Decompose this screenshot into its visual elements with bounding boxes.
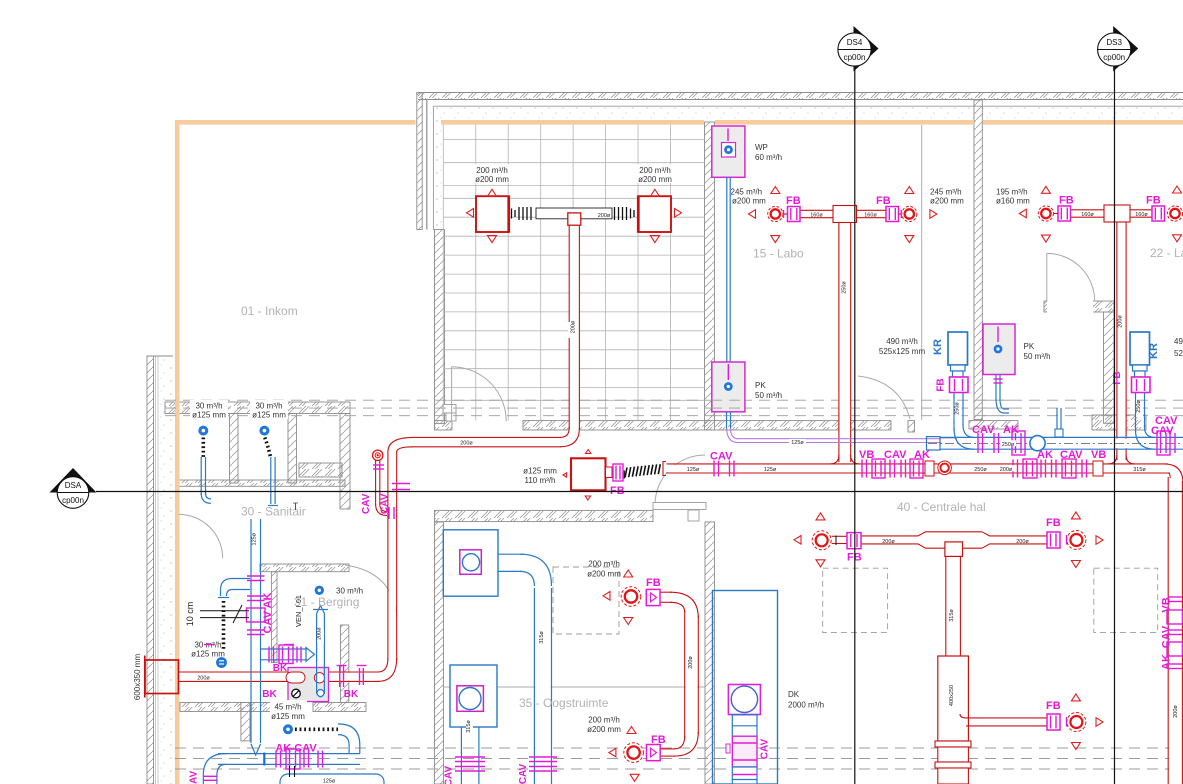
svg-text:31 - Berging: 31 - Berging bbox=[294, 595, 359, 609]
svg-text:01 - Inkom: 01 - Inkom bbox=[241, 304, 298, 318]
svg-text:30 m³/h: 30 m³/h bbox=[255, 402, 282, 411]
svg-text:200ø: 200ø bbox=[1118, 315, 1124, 328]
svg-text:200ø: 200ø bbox=[688, 656, 694, 669]
svg-text:250ø: 250ø bbox=[842, 281, 848, 294]
svg-text:KR: KR bbox=[1148, 343, 1160, 359]
svg-text:400x250: 400x250 bbox=[949, 685, 955, 706]
svg-text:45 m²/h: 45 m²/h bbox=[274, 703, 301, 712]
svg-text:110 m³/h: 110 m³/h bbox=[525, 476, 556, 485]
svg-text:ø200 mm: ø200 mm bbox=[475, 175, 509, 184]
svg-text:CAV: CAV bbox=[1161, 625, 1173, 648]
svg-text:FB: FB bbox=[786, 195, 801, 207]
svg-text:200ø: 200ø bbox=[460, 441, 473, 447]
svg-text:50 m³/h: 50 m³/h bbox=[755, 391, 782, 400]
svg-text:200 m³/h: 200 m³/h bbox=[588, 716, 620, 725]
svg-text:FB: FB bbox=[876, 195, 891, 207]
svg-text:AK: AK bbox=[914, 449, 930, 461]
svg-text:cp00n: cp00n bbox=[1103, 53, 1125, 62]
svg-text:CAV: CAV bbox=[1060, 449, 1083, 461]
svg-text:250ø: 250ø bbox=[1136, 400, 1142, 413]
svg-text:ø125 mm: ø125 mm bbox=[271, 712, 305, 721]
svg-text:CAV AK: CAV AK bbox=[262, 592, 274, 633]
svg-text:200ø: 200ø bbox=[317, 627, 323, 640]
svg-text:ø200 mm: ø200 mm bbox=[587, 570, 621, 579]
svg-text:160ø: 160ø bbox=[810, 213, 823, 219]
svg-text:FB: FB bbox=[651, 734, 666, 746]
svg-text:AK: AK bbox=[1161, 654, 1173, 670]
svg-text:200ø: 200ø bbox=[882, 539, 895, 545]
svg-text:125ø: 125ø bbox=[687, 467, 700, 473]
svg-text:200ø: 200ø bbox=[1016, 539, 1029, 545]
svg-text:ø125 mm: ø125 mm bbox=[192, 411, 226, 420]
svg-text:15 - Labo: 15 - Labo bbox=[753, 247, 804, 261]
svg-text:CAV: CAV bbox=[710, 451, 733, 463]
svg-text:245 m³/h: 245 m³/h bbox=[731, 188, 763, 197]
svg-text:315ø: 315ø bbox=[1133, 467, 1146, 473]
svg-text:30 m³/h: 30 m³/h bbox=[195, 402, 222, 411]
svg-text:2000 m³/h: 2000 m³/h bbox=[788, 701, 824, 710]
svg-text:250ø: 250ø bbox=[1002, 442, 1015, 448]
svg-text:AK: AK bbox=[1003, 424, 1019, 436]
svg-text:CAV: CAV bbox=[1151, 425, 1174, 437]
svg-text:BK: BK bbox=[344, 689, 359, 700]
svg-text:BK: BK bbox=[262, 689, 277, 700]
svg-text:FB: FB bbox=[1112, 371, 1123, 384]
svg-text:ø200 mm: ø200 mm bbox=[587, 725, 621, 734]
svg-text:BK: BK bbox=[273, 663, 288, 674]
svg-text:ø200 mm: ø200 mm bbox=[638, 175, 672, 184]
svg-text:KR: KR bbox=[932, 339, 944, 355]
svg-text:490 m³/h: 490 m³/h bbox=[886, 337, 918, 346]
svg-text:CAV: CAV bbox=[884, 449, 907, 461]
svg-text:200ø: 200ø bbox=[571, 320, 577, 333]
svg-text:DS3: DS3 bbox=[1106, 38, 1122, 47]
svg-text:CAV: CAV bbox=[361, 493, 372, 514]
svg-text:ø125 mm: ø125 mm bbox=[191, 650, 225, 659]
svg-text:ø125 mm: ø125 mm bbox=[523, 467, 557, 476]
svg-text:CAV: CAV bbox=[972, 424, 995, 436]
svg-text:FB: FB bbox=[1146, 195, 1161, 207]
svg-text:200ø: 200ø bbox=[197, 676, 210, 682]
svg-text:60 m³/h: 60 m³/h bbox=[755, 153, 782, 162]
svg-text:525x125 mm: 525x125 mm bbox=[879, 347, 926, 356]
svg-text:125ø: 125ø bbox=[764, 467, 777, 473]
svg-text:DS4: DS4 bbox=[847, 38, 863, 47]
svg-text:160ø: 160ø bbox=[864, 213, 877, 219]
svg-text:525: 525 bbox=[1174, 349, 1183, 358]
svg-text:600x350 mm: 600x350 mm bbox=[133, 654, 142, 701]
svg-text:cp00n: cp00n bbox=[844, 53, 866, 62]
svg-text:FB: FB bbox=[1059, 195, 1074, 207]
svg-text:160ø: 160ø bbox=[1135, 212, 1148, 218]
svg-text:250ø: 250ø bbox=[955, 402, 961, 415]
svg-text:CAV: CAV bbox=[760, 738, 771, 759]
svg-text:125ø: 125ø bbox=[323, 779, 336, 784]
svg-text:CAV: CAV bbox=[518, 763, 529, 784]
svg-text:FB: FB bbox=[646, 577, 661, 589]
svg-text:200ø: 200ø bbox=[1000, 467, 1013, 473]
svg-text:cp00n: cp00n bbox=[62, 496, 84, 505]
svg-text:CAV: CAV bbox=[444, 765, 455, 784]
svg-text:245 m³/h: 245 m³/h bbox=[930, 188, 962, 197]
svg-text:125ø: 125ø bbox=[791, 440, 804, 446]
svg-text:ø160 mm: ø160 mm bbox=[996, 197, 1030, 206]
svg-text:200 m³/h: 200 m³/h bbox=[476, 166, 508, 175]
svg-text:315ø: 315ø bbox=[539, 631, 545, 644]
svg-text:PK: PK bbox=[755, 381, 766, 390]
svg-text:FB: FB bbox=[1046, 700, 1061, 712]
svg-text:ø200 mm: ø200 mm bbox=[732, 197, 766, 206]
svg-text:250ø: 250ø bbox=[974, 467, 987, 473]
svg-text:200 m³/h: 200 m³/h bbox=[639, 166, 671, 175]
svg-text:VB: VB bbox=[859, 449, 874, 461]
svg-text:CAV: CAV bbox=[189, 770, 200, 784]
svg-text:160ø: 160ø bbox=[1081, 212, 1094, 218]
svg-text:125ø: 125ø bbox=[252, 532, 258, 545]
svg-text:35 - Oogstruimte: 35 - Oogstruimte bbox=[519, 696, 609, 710]
svg-text:50 m³/h: 50 m³/h bbox=[1024, 352, 1051, 361]
svg-text:490: 490 bbox=[1174, 337, 1183, 346]
svg-text:200 m³/h: 200 m³/h bbox=[588, 560, 620, 569]
svg-text:315ø: 315ø bbox=[949, 609, 955, 622]
svg-text:FB: FB bbox=[1046, 517, 1061, 529]
svg-text:22 - La: 22 - La bbox=[1150, 246, 1183, 260]
svg-text:315ø: 315ø bbox=[466, 720, 472, 733]
svg-text:ø200 mm: ø200 mm bbox=[930, 197, 964, 206]
svg-text:VB: VB bbox=[1161, 597, 1173, 612]
svg-text:10 cm: 10 cm bbox=[185, 602, 195, 627]
svg-text:CAV: CAV bbox=[380, 493, 391, 514]
svg-text:WP: WP bbox=[755, 143, 768, 152]
svg-text:40 - Centrale hal: 40 - Centrale hal bbox=[897, 500, 986, 514]
svg-text:200ø: 200ø bbox=[598, 213, 611, 219]
svg-text:200ø: 200ø bbox=[1173, 705, 1179, 718]
svg-text:DSA: DSA bbox=[65, 481, 82, 490]
svg-text:195 m³/h: 195 m³/h bbox=[996, 188, 1028, 197]
svg-text:DK: DK bbox=[788, 690, 800, 699]
svg-text:ø125 mm: ø125 mm bbox=[252, 411, 286, 420]
svg-text:PK: PK bbox=[1024, 342, 1035, 351]
svg-text:FB: FB bbox=[936, 378, 947, 391]
svg-text:VB: VB bbox=[1091, 449, 1106, 461]
